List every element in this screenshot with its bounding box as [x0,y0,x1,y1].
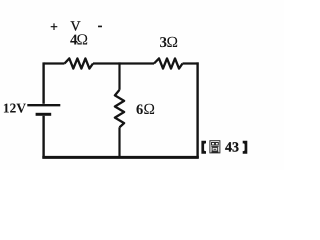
resistor R1 4-ohm zigzag [65,58,94,68]
label: plus sign of voltmeter annotation [51,24,57,30]
caption bracket left (lenticular) [201,141,206,154]
caption glyph: boxed CJK character for "figure" [210,141,220,153]
battery B1 negative plate (short) [36,113,52,116]
value label: 6 ohm [136,104,154,114]
wire: right vertical branch [196,62,198,158]
caption number 43 [225,142,238,151]
wire: top-left lead from corner to R1 [44,62,65,64]
label: minus sign of voltmeter annotation [98,25,101,28]
wire: bottom horizontal [42,156,199,159]
wire: top middle segment R1 to R2 [93,62,154,64]
caption bracket right (lenticular) [243,141,248,154]
value label: 3 ohm [160,37,177,47]
value label: 4 ohm [70,34,87,44]
value label: 12V battery voltage [4,104,26,113]
battery B1 positive plate (long) [27,104,60,106]
wire: left vertical upper (corner to battery) [42,62,44,103]
wire: middle vertical lower (R3 to bottom node) [118,127,120,158]
wire: top-right lead R2 to corner [183,62,199,64]
wire: left vertical lower (battery to bottom) [42,116,44,158]
resistor R3 6-ohm vertical zigzag [115,90,124,128]
wire: middle vertical upper (top node to R3) [118,62,120,89]
resistor R2 3-ohm zigzag [154,58,183,68]
label: V voltage annotation [71,21,81,30]
